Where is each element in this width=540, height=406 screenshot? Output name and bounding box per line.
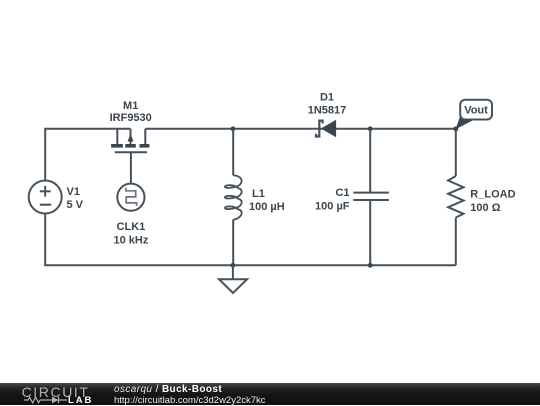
label CLK1 name and value 10 kHz: [113, 221, 148, 247]
svg-text:5 V: 5 V: [67, 199, 84, 211]
Vout flag pointer: [456, 117, 475, 130]
svg-text:Vout: Vout: [464, 105, 488, 117]
wire M1 gate to CLK1: [130, 152, 132, 183]
label D1 name and part 1N5817: [308, 91, 347, 116]
wire top rail right: M1 drain to Vout corner node: [145, 128, 456, 130]
label L1 name and value 100 uH: [249, 188, 285, 213]
transistor M1 PMOS body: drain stub, bulk stub, source stub, channel bars, gate plate: [111, 129, 149, 153]
label M1 name and part IRF9530: [110, 100, 152, 124]
diode D1 triangle (anode right, pointing left): [321, 120, 336, 138]
wire L1 top lead: [232, 129, 234, 176]
svg-text:IRF9530: IRF9530: [110, 112, 152, 124]
label V1 name and value 5 V: [67, 186, 84, 211]
capacitor C1: leads and plates: [353, 129, 389, 265]
node junction C1 bottom on rail: [368, 263, 373, 268]
svg-text:10 kHz: 10 kHz: [113, 234, 148, 246]
wire bottom rail: V1 negative terminal down and right to R_LOAD bottom: [45, 214, 456, 266]
M1 bulk arrow: [128, 134, 134, 142]
wire R_LOAD bottom lead: [455, 218, 457, 266]
svg-text:100 Ω: 100 Ω: [470, 202, 500, 214]
bottom bar: [0, 383, 540, 405]
svg-text:D1: D1: [320, 91, 334, 103]
wire R_LOAD top lead: [455, 129, 457, 176]
logo wire with resistor zigzag and diode cathode bar: [24, 397, 67, 403]
resistor R_LOAD zigzag: [448, 176, 463, 218]
svg-text:LAB: LAB: [68, 395, 93, 405]
wire top rail left: V1 positive terminal up and right to M1 source/bulk: [45, 129, 130, 181]
caption author and title: [114, 384, 222, 395]
svg-text:C1: C1: [335, 187, 349, 199]
svg-text:100 µF: 100 µF: [315, 201, 350, 213]
label C1 name and value 100 uF: [315, 187, 350, 213]
wire ground stub: [232, 265, 234, 279]
node Vout corner junction: [453, 126, 458, 131]
node junction L1 top on rail: [231, 126, 236, 131]
caption url: [114, 395, 266, 406]
svg-text:100 µH: 100 µH: [249, 201, 285, 213]
label R_LOAD name and value 100 ohm: [470, 188, 515, 214]
svg-text:L1: L1: [252, 188, 265, 200]
svg-text:V1: V1: [67, 186, 80, 198]
node junction C1 top on rail: [368, 126, 373, 131]
inductor L1 coil: [225, 175, 242, 219]
ground symbol triangle: [219, 279, 247, 293]
svg-text:M1: M1: [123, 100, 138, 112]
node junction ground on rail: [231, 263, 236, 268]
wire L1 bottom lead: [232, 220, 234, 266]
voltage source V1 symbol: [29, 181, 62, 214]
clock source CLK1 circle: [117, 184, 144, 211]
logo diode triangle: [52, 397, 59, 404]
svg-text:R_LOAD: R_LOAD: [470, 188, 515, 200]
svg-text:1N5817: 1N5817: [308, 104, 347, 116]
CLK1 square-wave glyph: [126, 188, 137, 206]
diode D1 schottky cathode bar with hooks: [316, 121, 323, 137]
Vout flag box: [460, 100, 492, 120]
svg-text:CLK1: CLK1: [117, 221, 146, 233]
CircuitLab logo: [0, 383, 110, 405]
